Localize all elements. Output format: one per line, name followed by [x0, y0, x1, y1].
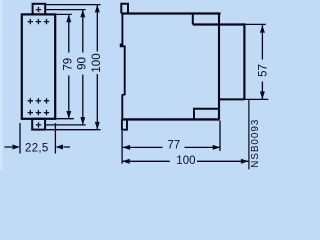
- dimension tails 22,5: [5, 146, 71, 148]
- svg-text:79: 79: [62, 58, 74, 71]
- dimension line 57: [261, 25, 263, 99]
- rail block bottom: [219, 98, 244, 100]
- faint scan border line: [0, 0, 2, 170]
- side view top-right recess: left edge: [192, 14, 194, 25]
- arrow 90 up: [80, 10, 85, 18]
- extension line 57 bottom: [244, 98, 268, 100]
- extension line 100 top: [46, 4, 101, 6]
- arrow 77 right: [213, 145, 221, 150]
- dimension line 79: [68, 15, 70, 119]
- extension line left of bottom dims: [121, 131, 123, 164]
- arrow 22,5 left: [12, 145, 20, 150]
- arrow 90 down: [80, 117, 85, 125]
- extension line 90 bottom: [46, 124, 86, 126]
- arrow 22,5 right: [55, 145, 63, 150]
- extension lines 22,5: [20, 123, 55, 154]
- svg-text:57: 57: [257, 64, 269, 77]
- side view right edge: [218, 14, 220, 120]
- arrow 100 side left: [122, 159, 130, 164]
- arrow 100 up: [95, 5, 100, 13]
- dimension line 100 left view: [96, 5, 98, 130]
- side view bottom edge: [121, 118, 219, 120]
- svg-text:100: 100: [91, 53, 103, 72]
- bottom tab hole cross: [36, 122, 41, 127]
- extension line 79 bottom: [55, 118, 74, 120]
- arrow 57 up: [260, 25, 265, 33]
- recess bottom and rail block top: [193, 23, 245, 25]
- svg-text:22,5: 22,5: [25, 142, 49, 154]
- svg-text:100: 100: [176, 155, 195, 167]
- svg-text:NSB0093: NSB0093: [250, 119, 261, 168]
- top tab hole cross: [36, 7, 41, 12]
- pin row top: [28, 19, 50, 24]
- front view bottom mounting tab: [32, 119, 45, 130]
- arrow 100 side right: [241, 159, 249, 164]
- extension line 77 right: [219, 121, 221, 151]
- terminal cross marks front view: [28, 7, 50, 128]
- extension line 100 bottom: [46, 129, 101, 131]
- arrow 77 left: [123, 145, 131, 150]
- extension line 90 top: [46, 9, 86, 11]
- dimension line 100 side view: [122, 160, 248, 162]
- arrow 79 up: [66, 15, 71, 23]
- arrow 57 down: [260, 92, 265, 100]
- side view top tab: [121, 4, 128, 14]
- rail block back edge: [243, 23, 245, 99]
- side view top edge: [121, 12, 220, 14]
- pin row bottom B: [28, 110, 50, 115]
- front view body outline: [22, 14, 55, 118]
- side view bottom-right recess box: [194, 109, 219, 119]
- svg-text:90: 90: [77, 57, 89, 70]
- front view top mounting tab: [33, 4, 46, 15]
- dimension line 77: [123, 146, 221, 148]
- svg-text:77: 77: [167, 140, 180, 152]
- arrow 79 down: [66, 111, 71, 119]
- extension line 100 right / part number underline: [248, 100, 250, 170]
- extension line 57 top: [245, 23, 266, 25]
- dimension line 90: [82, 10, 84, 125]
- side view left edge with seam jogs: [121, 14, 125, 120]
- arrow 100 down: [95, 122, 100, 130]
- side view bottom tab: [122, 119, 127, 129]
- extension line 79 top: [55, 13, 72, 15]
- pin row bottom A: [28, 98, 50, 103]
